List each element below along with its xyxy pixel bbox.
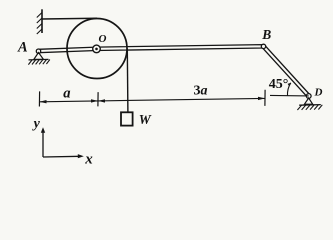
dimension tick below O <box>97 92 99 106</box>
svg-text:3a: 3a <box>194 84 208 99</box>
pulley (circle, center O) <box>67 19 127 79</box>
dimension line 3a (O to B) with end arrowheads <box>98 97 265 103</box>
svg-text:45°: 45° <box>269 77 289 92</box>
dimension tick below B <box>264 90 266 106</box>
angle reference line at D (horizontal) <box>270 94 309 97</box>
support A (triangle, ground line, hatching) <box>28 53 49 65</box>
svg-text:y: y <box>32 116 41 131</box>
weight W (hanging block) <box>121 112 133 125</box>
svg-text:x: x <box>84 151 93 167</box>
svg-text:O: O <box>99 33 107 45</box>
svg-text:D: D <box>314 86 323 98</box>
svg-text:A: A <box>17 40 28 56</box>
support D (triangle, ground line, hatching) <box>297 98 322 110</box>
dimension tick at A <box>38 91 40 106</box>
coordinate axes x-y <box>41 127 84 158</box>
pin A <box>36 49 40 53</box>
pin B <box>261 44 265 48</box>
pin D <box>306 94 311 99</box>
beam B-D (double line, 45 deg) <box>262 45 310 97</box>
beam A-B (double line) <box>38 45 263 53</box>
svg-text:a: a <box>63 86 71 102</box>
pin O (pulley axle) <box>93 45 101 53</box>
svg-text:W: W <box>139 112 152 127</box>
wall anchor (cord support, top-left) <box>37 9 42 34</box>
angle arc 45 deg at D (with arrowhead) <box>287 83 290 96</box>
cord (wall to top of pulley) <box>42 17 97 20</box>
dimension line a (A to O) with end arrowheads <box>40 99 99 103</box>
rope (pulley right tangent down to weight) <box>126 49 129 113</box>
svg-text:B: B <box>261 27 271 42</box>
